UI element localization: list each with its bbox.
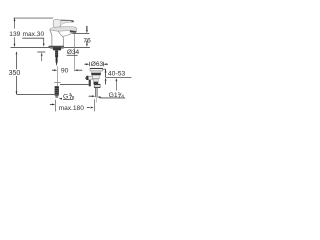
dimension max.180 xyxy=(55,100,57,112)
svg-text:max.30: max.30 xyxy=(23,31,45,38)
svg-text:90: 90 xyxy=(61,67,69,74)
faucet body outline left xyxy=(50,30,52,46)
svg-text:Ø63: Ø63 xyxy=(91,61,104,68)
lever tip dark xyxy=(71,20,74,22)
deck / counter line xyxy=(11,46,91,48)
spout tip extension vertical line xyxy=(73,34,75,71)
mounting washer below deck xyxy=(50,48,64,50)
svg-text:max.180: max.180 xyxy=(59,105,85,112)
G1 1/4 left-side arrow at pipe xyxy=(89,95,93,97)
350 bottom reference line xyxy=(17,94,55,96)
svg-text:8: 8 xyxy=(72,95,75,101)
dimension 40-53 xyxy=(103,68,106,70)
dimension 76 lower arrow xyxy=(86,41,88,44)
dimension Ø63 xyxy=(84,63,87,65)
lever arm dark top edge xyxy=(61,20,73,21)
label G1 1/4 with leader xyxy=(116,78,118,81)
max.30 lower reference line and up arrow xyxy=(37,51,45,53)
waste dark band 2 xyxy=(94,82,99,84)
dimension 90 right arrow pointing left xyxy=(74,69,77,71)
svg-text:4: 4 xyxy=(121,94,124,100)
waste thin tailpipe xyxy=(94,88,96,98)
waste coupling nut xyxy=(94,84,100,88)
supply pipe nipple G3/8 xyxy=(55,86,59,95)
svg-text:1: 1 xyxy=(118,91,121,97)
faucet lever arm xyxy=(60,20,73,27)
faucet spout body (gray mass) xyxy=(50,27,77,32)
dimension 90 line left part with arrow xyxy=(52,69,55,71)
waste flange xyxy=(90,68,103,71)
Ø34 underline xyxy=(67,54,78,56)
dimension 76 extension line (spout outlet) xyxy=(72,32,89,34)
pop-up rod tick xyxy=(54,81,61,83)
pop-up clevis block xyxy=(89,80,91,86)
faucet base plate xyxy=(49,46,64,48)
waste neck xyxy=(92,75,99,78)
faucet lever knob xyxy=(53,20,60,28)
svg-text:139: 139 xyxy=(9,31,20,38)
svg-text:40-53: 40-53 xyxy=(108,71,126,78)
dimension 139 vertical line xyxy=(14,19,16,47)
max.30 leader underline and down arrow xyxy=(22,37,44,39)
top extension line from lever knob xyxy=(13,17,53,19)
aerator dark band xyxy=(70,30,77,33)
dimension 76 upper arrow xyxy=(86,26,88,31)
svg-text:350: 350 xyxy=(9,70,21,77)
dimension 139 arrowheads xyxy=(14,18,16,21)
faucet body outline right xyxy=(62,38,64,47)
waste side port xyxy=(88,76,93,79)
dimension 350 xyxy=(16,51,18,54)
pop-up horizontal rod xyxy=(60,83,89,85)
supply centerline xyxy=(56,66,58,86)
shank pointed tip xyxy=(56,62,58,66)
threaded shank xyxy=(55,50,58,57)
waste tube xyxy=(94,79,99,82)
waste upper body xyxy=(91,71,101,73)
under-spout curve xyxy=(58,31,71,37)
waste dark band xyxy=(91,73,101,75)
